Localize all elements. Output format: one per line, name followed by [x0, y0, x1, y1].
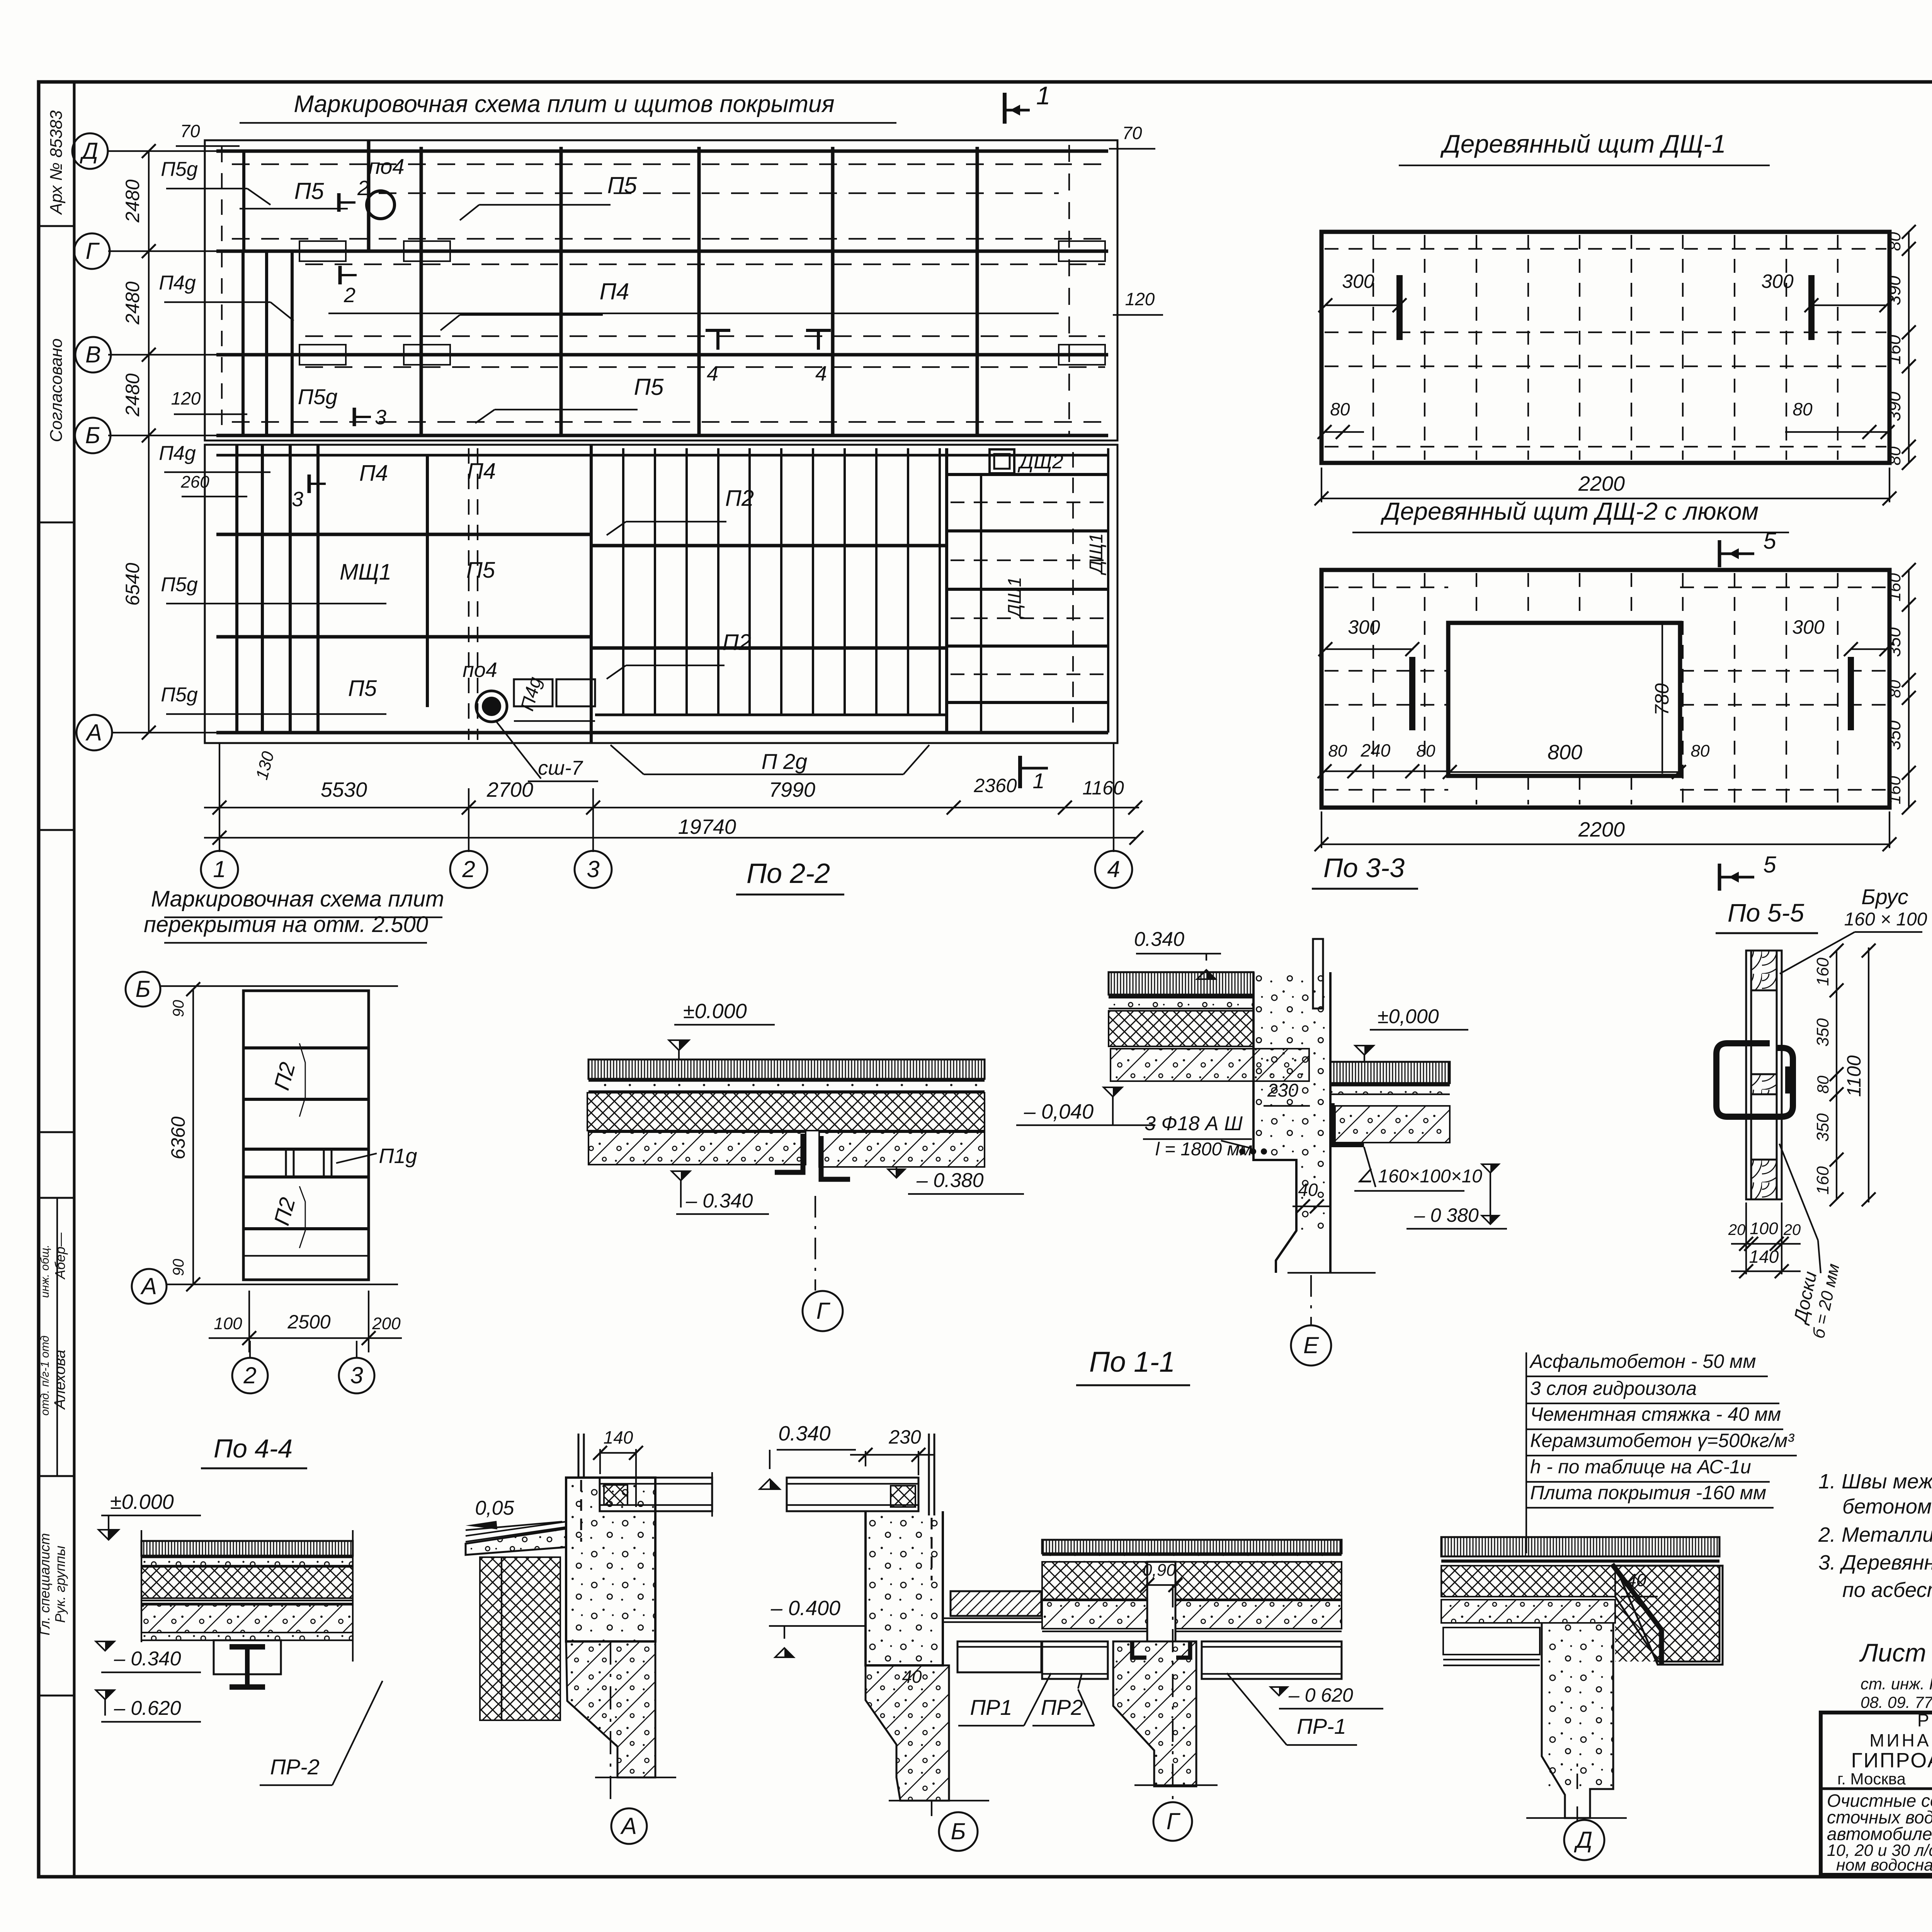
axis D bubble: [1577, 1806, 1578, 1821]
margin divider lines: [39, 225, 74, 227]
svg-text:120: 120: [171, 388, 201, 408]
svg-text:90: 90: [170, 1000, 187, 1017]
svg-text:– 0,040: – 0,040: [1024, 1100, 1094, 1123]
plan lower block outer rect: [205, 445, 1117, 743]
lower-left region rows: [216, 533, 591, 536]
left strip verticals lower: [235, 445, 238, 733]
svg-text:П2: П2: [725, 486, 754, 511]
svg-text:4: 4: [815, 362, 827, 385]
section mark 2 top: [337, 193, 341, 212]
svg-text:2: 2: [462, 856, 475, 882]
svg-text:±0.000: ±0.000: [110, 1490, 174, 1514]
svg-text:– 0.620: – 0.620: [114, 1697, 181, 1719]
col2 dashed axis: [468, 448, 469, 740]
svg-text:350: 350: [1884, 627, 1904, 657]
left margin inner line: [73, 82, 76, 1877]
svg-text:0.340: 0.340: [1134, 928, 1184, 951]
axis G dashdot: [815, 1196, 816, 1291]
axis B bubble: [931, 1801, 932, 1816]
svg-text:РСФСР: РСФСР: [1917, 1710, 1932, 1730]
svg-text:Г: Г: [816, 1298, 831, 1324]
svg-text:Е: Е: [1303, 1332, 1319, 1358]
level -0 380 right: [1482, 1164, 1499, 1173]
svg-text:1100: 1100: [1843, 1055, 1865, 1097]
svg-text:Брус: Брус: [1861, 884, 1908, 909]
section A wall: [566, 1478, 655, 1641]
svg-text:20: 20: [1783, 1221, 1801, 1238]
svg-text:По 2-2: По 2-2: [747, 858, 830, 889]
axis E: [1310, 1275, 1312, 1325]
svg-text:По 4-4: По 4-4: [214, 1434, 293, 1463]
svg-text:Абер—: Абер—: [52, 1232, 68, 1280]
section D wedge: [1615, 1566, 1719, 1662]
svg-text:Керамзитобетон γ=500кг/м³: Керамзитобетон γ=500кг/м³: [1530, 1430, 1794, 1451]
svg-text:отд. п/г-1 отд: отд. п/г-1 отд: [39, 1335, 51, 1415]
section G slab vent: [1042, 1540, 1342, 1553]
po 1-1 left slab vent layer: [588, 1060, 985, 1079]
bold angle steel: [1332, 1103, 1364, 1145]
svg-text:240: 240: [1361, 740, 1391, 760]
section B pipe: [928, 1434, 930, 1515]
section mark 2 band2: [338, 266, 342, 284]
svg-text:П5: П5: [607, 172, 637, 198]
svg-text:160: 160: [1885, 573, 1904, 602]
svg-text:6360: 6360: [167, 1116, 189, 1159]
svg-text:4: 4: [707, 362, 718, 385]
svg-text:3: 3: [292, 488, 303, 511]
svg-text:МИНАВТОТРАНС: МИНАВТОТРАНС: [1869, 1730, 1932, 1750]
po 5-5 bottom dims: [1731, 1243, 1801, 1245]
svg-text:80: 80: [1814, 1075, 1832, 1094]
svg-text:П4: П4: [600, 279, 629, 304]
svg-text:300: 300: [1342, 270, 1374, 292]
svg-text:Маркировочная схема плит: Маркировочная схема плит: [151, 886, 444, 912]
svg-text:2500: 2500: [287, 1311, 330, 1333]
svg-text:П4g: П4g: [159, 442, 196, 464]
svg-text:3 Ф18 А Ш: 3 Ф18 А Ш: [1145, 1112, 1243, 1135]
po 4-4 level -0.340: [96, 1641, 114, 1651]
right section lower: [947, 473, 1108, 476]
svg-text:70: 70: [180, 121, 200, 141]
svg-text:80: 80: [1691, 742, 1710, 760]
svg-text:80: 80: [1793, 399, 1813, 419]
panel DSch-2 body: [1321, 570, 1889, 808]
svg-text:1: 1: [1036, 81, 1051, 110]
svg-text:сш-7: сш-7: [538, 757, 583, 779]
po 4-4 slab vent layer: [141, 1541, 353, 1556]
svg-text:5530: 5530: [321, 778, 367, 801]
svg-text:П5: П5: [466, 558, 495, 583]
DSch2 square symbol: [990, 449, 1014, 473]
po 1-1 left slab deck right: [819, 1132, 985, 1167]
svg-text:2: 2: [357, 177, 369, 200]
svg-text:200: 200: [372, 1314, 401, 1333]
svg-text:по4: по4: [463, 658, 497, 682]
plan upper block internals: [216, 150, 1108, 153]
svg-text:160: 160: [1813, 1166, 1832, 1195]
svg-text:– 0.340: – 0.340: [114, 1648, 181, 1670]
svg-text:160: 160: [1884, 335, 1904, 364]
svg-text:Б: Б: [951, 1818, 966, 1844]
svg-text:230: 230: [1267, 1080, 1298, 1101]
svg-text:2200: 2200: [1578, 818, 1625, 841]
svg-text:260: 260: [180, 473, 209, 492]
grid bubbles rows: [72, 133, 108, 169]
svg-text:– 0.340: – 0.340: [685, 1190, 753, 1212]
po 5-5 boards: [1746, 951, 1751, 1199]
svg-text:1: 1: [213, 856, 226, 882]
svg-text:Алехова: Алехова: [51, 1350, 68, 1410]
svg-text:3 слоя гидроизола: 3 слоя гидроизола: [1530, 1378, 1697, 1399]
section A dim 140: [600, 1452, 636, 1454]
section A roof slab sloped: [466, 1522, 566, 1536]
right section dashed boundary: [1068, 145, 1070, 437]
svg-text:ДЩ1: ДЩ1: [1086, 533, 1107, 576]
svg-text:П4: П4: [467, 459, 496, 484]
svg-text:350: 350: [1813, 1018, 1832, 1047]
svg-text:Г: Г: [86, 238, 100, 264]
svg-text:Рук. группы: Рук. группы: [52, 1546, 68, 1623]
po 1-1 column: [1253, 972, 1330, 1160]
svg-text:2360: 2360: [973, 775, 1017, 796]
svg-text:90: 90: [170, 1259, 187, 1276]
svg-text:6540: 6540: [122, 563, 143, 605]
level -0 620 right: [1270, 1687, 1287, 1696]
bold clamp: [1716, 1043, 1793, 1117]
svg-text:40: 40: [1298, 1180, 1318, 1200]
svg-text:3: 3: [350, 1362, 363, 1388]
small plan strip body: [243, 991, 369, 1280]
upper joints verticals: [367, 140, 371, 251]
svg-text:5: 5: [1763, 528, 1776, 554]
po 1-1 left slab screed: [588, 1082, 985, 1091]
svg-text:Д: Д: [1574, 1827, 1592, 1853]
wood blocks: [1751, 951, 1777, 990]
svg-text:40: 40: [1626, 1570, 1646, 1590]
svg-text:Плита покрытия -160 мм: Плита покрытия -160 мм: [1530, 1482, 1766, 1503]
svg-text:ст. инж. Кочетова: ст. инж. Кочетова: [1861, 1675, 1932, 1693]
svg-text:5: 5: [1763, 852, 1776, 878]
column bubbles: [201, 851, 238, 888]
svg-text:800: 800: [1548, 741, 1582, 764]
svg-text:По 1-1: По 1-1: [1089, 1346, 1175, 1378]
section flag 5 top: [1718, 540, 1721, 567]
svg-text:бетоном № „100".: бетоном № „100".: [1842, 1495, 1932, 1518]
section mark 3 band3: [353, 408, 356, 426]
svg-text:80: 80: [1885, 232, 1904, 251]
section G bold angles: [1132, 1641, 1146, 1658]
axis G bubble: [1172, 1584, 1173, 1801]
svg-text:инж. общ.: инж. общ.: [39, 1245, 51, 1298]
svg-text:2: 2: [243, 1362, 256, 1388]
title block frame: [1821, 1713, 1932, 1875]
svg-text:4: 4: [1107, 856, 1120, 882]
svg-text:160: 160: [1885, 776, 1904, 804]
section D column: [1542, 1623, 1613, 1789]
svg-text:П5g: П5g: [298, 384, 338, 409]
svg-text:Маркировочная схема плит и: Маркировочная схема плит и щитов покрыти…: [294, 91, 834, 117]
L-angles bold joint: [775, 1134, 803, 1172]
svg-text:±0.000: ±0.000: [683, 1000, 747, 1023]
section flag 1 top: [1003, 93, 1007, 124]
svg-text:20: 20: [1728, 1221, 1746, 1238]
column top tube: [1313, 939, 1323, 1009]
svg-text:А: А: [620, 1813, 637, 1839]
svg-text:160: 160: [1813, 957, 1832, 986]
panel DSch-1 body: [1321, 232, 1889, 463]
po 1-1 left slab deck left: [588, 1132, 806, 1165]
svg-text:– 0 380: – 0 380: [1414, 1204, 1479, 1226]
section flag 1 bottom: [1018, 756, 1022, 788]
po 4-4 deck: [141, 1605, 353, 1633]
section B wall top slab: [787, 1478, 918, 1511]
svg-text:1. Швы между плитами покрыт: 1. Швы между плитами покрытия тщательно …: [1818, 1470, 1932, 1493]
svg-text:П5: П5: [634, 374, 664, 400]
svg-text:80: 80: [1417, 742, 1435, 760]
level -0.380 left: [888, 1169, 905, 1178]
section G neck: [1147, 1562, 1175, 1641]
connection tabs: [299, 241, 346, 261]
section D beams left: [1443, 1628, 1540, 1655]
svg-text:ПР1: ПР1: [970, 1695, 1012, 1719]
svg-text:3: 3: [375, 406, 386, 429]
svg-text:2: 2: [344, 284, 355, 307]
svg-text:П5: П5: [294, 178, 324, 204]
svg-text:2480: 2480: [122, 373, 143, 417]
svg-text:390: 390: [1884, 276, 1904, 305]
DSch-1 bold nail strips: [1396, 275, 1403, 340]
svg-text:80: 80: [1886, 680, 1904, 698]
svg-text:2. Металлический щит МЩ-6 с: 2. Металлический щит МЩ-6 см. лист АС-8.: [1818, 1523, 1932, 1546]
title block org cell: [1821, 1787, 1932, 1790]
svg-text:– 0 620: – 0 620: [1288, 1684, 1353, 1706]
svg-text:ПР2: ПР2: [1041, 1695, 1083, 1719]
svg-text:140: 140: [604, 1427, 633, 1447]
svg-text:300: 300: [1792, 616, 1825, 638]
svg-text:h - по таблице на АС-1и: h - по таблице на АС-1и: [1530, 1456, 1751, 1478]
svg-text:По 3-3: По 3-3: [1323, 853, 1405, 883]
svg-text:Чементная стяжка - 40 мм: Чементная стяжка - 40 мм: [1530, 1403, 1781, 1425]
po 4-4 I-beam box: [214, 1640, 281, 1674]
section A floor plate right: [600, 1478, 712, 1511]
svg-text:Б: Б: [85, 422, 100, 448]
svg-text:А: А: [85, 719, 102, 745]
po 5-5 right dims: [1836, 951, 1837, 1199]
DSch-2 bold nail strips: [1409, 657, 1415, 730]
svg-text:140: 140: [1749, 1247, 1779, 1267]
po 4-4 membrane lines: [141, 1600, 353, 1601]
po 4-4 I-beam: [230, 1644, 265, 1650]
section G slab deck: [1042, 1600, 1147, 1629]
svg-text:ном водоснабжении: ном водоснабжении: [1836, 1856, 1932, 1874]
svg-text:г. Москва: г. Москва: [1837, 1770, 1906, 1788]
small plan row A: [166, 1284, 398, 1285]
svg-text:2200: 2200: [1578, 472, 1625, 495]
section A axis + bubble: [610, 1641, 611, 1801]
section A foundation: [566, 1641, 655, 1777]
svg-text:По 5-5: По 5-5: [1728, 898, 1804, 927]
section G column: [1113, 1641, 1196, 1786]
svg-text:300: 300: [1761, 270, 1794, 292]
section A pipe: [578, 1434, 580, 1478]
level -0.340 left: [672, 1171, 690, 1180]
svg-text:Деревянный щит ДЩ-1: Деревянный щит ДЩ-1: [1440, 129, 1726, 158]
po 4-4 edge breaks: [141, 1530, 142, 1642]
svg-text:1: 1: [1032, 769, 1044, 793]
section D slab: [1441, 1537, 1719, 1556]
bottom dim chains: [219, 743, 220, 852]
svg-text:0,90: 0,90: [1143, 1561, 1176, 1580]
svg-text:Асфальтобетон - 50 мм: Асфальтобетон - 50 мм: [1529, 1350, 1756, 1372]
po 1-1 right: right slab: [1330, 1062, 1450, 1083]
svg-text:80: 80: [1330, 399, 1350, 419]
svg-text:1100: 1100: [1930, 666, 1932, 709]
svg-text:40: 40: [902, 1667, 922, 1687]
P4g small strip cells: [514, 679, 553, 706]
svg-text:П5g: П5g: [161, 573, 198, 596]
svg-text:П 2g: П 2g: [762, 749, 807, 774]
svg-text:160 × 100: 160 × 100: [1844, 909, 1927, 930]
svg-text:3: 3: [587, 856, 599, 882]
svg-text:Б: Б: [135, 976, 150, 1002]
svg-text:80: 80: [1328, 742, 1347, 760]
section A base line: [595, 1777, 676, 1778]
svg-text:1160: 1160: [1082, 777, 1124, 799]
svg-text:l = 1800 мм: l = 1800 мм: [1155, 1139, 1252, 1160]
svg-text:±0,000: ±0,000: [1378, 1005, 1439, 1028]
svg-text:08. 09. 77: 08. 09. 77: [1861, 1693, 1932, 1711]
svg-text:П5g: П5g: [161, 684, 198, 706]
svg-text:П4: П4: [359, 461, 388, 486]
po 4-4 insulation: [141, 1567, 353, 1598]
section flag 5 bottom: [1718, 864, 1721, 891]
long solid joint band2: [328, 313, 1059, 314]
svg-text:П5: П5: [348, 676, 377, 701]
section mark 3 lower: [308, 474, 311, 493]
svg-text:перекрытия на отм. 2.500: перекрытия на отм. 2.500: [144, 912, 428, 937]
plan upper block outer rect: [205, 140, 1117, 440]
section B wall: [866, 1515, 943, 1665]
svg-text:80: 80: [1885, 446, 1904, 465]
P1g narrow cells: [285, 1149, 287, 1177]
grid row leader lines: [108, 150, 226, 152]
svg-text:П2: П2: [723, 630, 751, 655]
svg-text:2480: 2480: [122, 179, 143, 223]
svg-text:3. Деревянные щиты обить: 3. Деревянные щиты обить кровельной стал…: [1818, 1551, 1932, 1574]
svg-text:Д: Д: [80, 138, 98, 164]
svg-text:0,05: 0,05: [475, 1497, 514, 1519]
svg-text:ПР-1: ПР-1: [1297, 1714, 1346, 1738]
svg-text:В: В: [85, 342, 101, 367]
svg-text:ГИПРОАВТОТРАНС: ГИПРОАВТОТРАНС: [1851, 1749, 1932, 1772]
svg-text:П1g: П1g: [379, 1145, 417, 1168]
svg-text:70: 70: [1122, 123, 1142, 143]
svg-text:ДЩ1: ДЩ1: [1005, 577, 1025, 619]
po 1-1 right: left slab: [1109, 972, 1253, 995]
svg-text:2700: 2700: [486, 778, 533, 801]
svg-text:350: 350: [1813, 1113, 1832, 1142]
svg-text:7990: 7990: [769, 778, 815, 801]
svg-text:по асбестовому картону то: по асбестовому картону толщиной 5 мм.: [1842, 1578, 1932, 1602]
plan lower block internals: [216, 454, 1108, 457]
section A crosshatch block: [480, 1557, 560, 1720]
svg-text:МЩ1: МЩ1: [340, 560, 391, 585]
svg-text:390: 390: [1884, 391, 1904, 421]
upper P2 cells: [243, 1046, 369, 1049]
small plan row B: [160, 985, 398, 987]
svg-text:– 0.400: – 0.400: [770, 1597, 840, 1620]
section G slab insulation: [1042, 1562, 1147, 1599]
section B slab right: [951, 1591, 1041, 1616]
po 4-4 level -0.620: [96, 1690, 114, 1699]
svg-text:2480: 2480: [122, 281, 143, 325]
svg-text:Арх № 85383: Арх № 85383: [47, 110, 66, 215]
svg-text:П5g: П5g: [161, 158, 198, 180]
T marks 4: [706, 329, 730, 332]
svg-text:100: 100: [214, 1314, 242, 1333]
po 4-4 screed: [141, 1558, 353, 1566]
svg-text:П4g: П4g: [159, 272, 196, 294]
svg-text:100: 100: [1750, 1219, 1778, 1238]
svg-text:120: 120: [1125, 289, 1155, 309]
svg-text:Лист АС-5И выпущен взамен: Лист АС-5И выпущен взамен листа АС-5: [1859, 1638, 1932, 1667]
lower P2 cells: [243, 1227, 369, 1230]
svg-text:А: А: [140, 1273, 157, 1299]
svg-text:– 0.380: – 0.380: [916, 1169, 984, 1192]
svg-text:19740: 19740: [678, 815, 736, 838]
svg-text:350: 350: [1884, 720, 1904, 750]
svg-text:ДЩ2: ДЩ2: [1017, 451, 1063, 473]
small plan dims: [192, 989, 194, 1284]
label PR2 G leader: [1078, 1673, 1082, 1689]
DSch-2 hatch opening: [1448, 623, 1680, 776]
svg-text:ПР-2: ПР-2: [270, 1755, 320, 1779]
svg-text:Согласовано: Согласовано: [47, 338, 66, 442]
left vertical dim chain: [148, 151, 150, 733]
svg-text:1100: 1100: [1930, 326, 1932, 369]
svg-text:по4: по4: [368, 154, 404, 179]
svg-text:230: 230: [888, 1426, 921, 1448]
svg-text:Гл. специалист: Гл. специалист: [37, 1533, 53, 1636]
svg-text:300: 300: [1348, 616, 1380, 638]
svg-text:Г: Г: [1167, 1808, 1181, 1834]
po 1-1 left slab insulation: [587, 1093, 985, 1131]
svg-text:0.340: 0.340: [778, 1422, 830, 1445]
svg-text:Деревянный щит ДЩ-2 с люк: Деревянный щит ДЩ-2 с люком: [1381, 497, 1759, 525]
section G plates PR2 PR1: [1042, 1641, 1108, 1679]
left strip verticals upper: [242, 151, 245, 251]
upper dashed rows: [232, 163, 1105, 165]
P2 centre region: [590, 445, 593, 743]
